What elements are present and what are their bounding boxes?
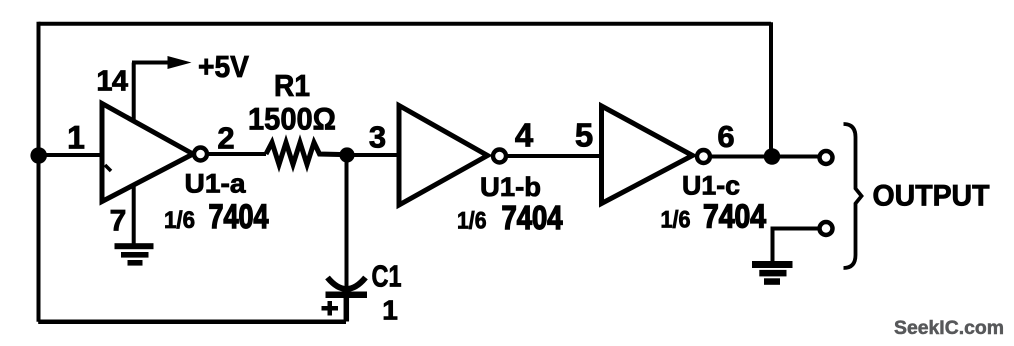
- wire U1-c output to terminal: [710, 155, 818, 159]
- svg-text:7: 7: [110, 205, 127, 238]
- inverter U1-c (1/6 7404): [602, 106, 693, 204]
- svg-text:1: 1: [382, 295, 398, 326]
- svg-text:4: 4: [515, 117, 534, 154]
- ground (U1-a pin 7): [115, 243, 154, 265]
- plus sign of C1: [322, 301, 339, 316]
- wire U1-b output to U1-c input: [506, 154, 603, 158]
- svg-text:2: 2: [217, 121, 234, 156]
- wire right vertical from top feedback down to output node: [769, 22, 773, 157]
- svg-text:SeekIC.com: SeekIC.com: [894, 318, 1004, 339]
- wire bottom feedback: [38, 320, 346, 325]
- svg-text:R1: R1: [274, 68, 310, 103]
- output terminal 2: [820, 222, 833, 235]
- svg-text:1: 1: [67, 120, 85, 156]
- svg-text:7404: 7404: [209, 198, 269, 236]
- svg-text:+5V: +5V: [198, 49, 249, 84]
- pin 7 wire: [132, 184, 136, 246]
- wire terminal 2 to ground: [773, 229, 819, 263]
- node B (R1 / C1 / U1-b input junction): [339, 147, 354, 162]
- wire U1-a output to R1: [207, 152, 266, 156]
- svg-text:1500Ω: 1500Ω: [248, 101, 336, 137]
- wire input to U1-a pin 1: [39, 153, 102, 157]
- svg-text:1/6: 1/6: [457, 208, 487, 235]
- inverter U1-b (1/6 7404): [399, 106, 488, 206]
- wire C1 to bottom feedback: [344, 297, 350, 322]
- output terminal 1: [820, 151, 833, 164]
- node C (output junction): [764, 148, 781, 165]
- svg-text:1/6: 1/6: [164, 207, 195, 234]
- svg-text:C1: C1: [372, 259, 402, 294]
- U1-b output bubble (pin 4): [493, 150, 506, 163]
- svg-text:7404: 7404: [703, 198, 767, 235]
- svg-text:1: 1: [96, 66, 112, 98]
- U1-c output bubble (pin 6): [697, 150, 710, 163]
- capacitor C1 flat plate: [326, 292, 368, 299]
- svg-text:1/6: 1/6: [661, 207, 691, 234]
- U1-a output bubble (pin 2): [194, 148, 207, 161]
- inverter U1-a (1/6 7404): [102, 104, 193, 202]
- wire top feedback: [39, 22, 772, 26]
- wire left vertical feedback: [37, 22, 41, 322]
- resistor R1: [266, 143, 340, 165]
- svg-text:6: 6: [717, 119, 734, 154]
- node A (input node, pin 1): [30, 147, 47, 164]
- svg-text:U1-c: U1-c: [682, 171, 740, 201]
- pin 14 wire: [132, 63, 136, 123]
- svg-text:U1-a: U1-a: [185, 169, 247, 199]
- capacitor C1 curved plate: [328, 278, 366, 290]
- wire node B down to C1: [345, 155, 349, 286]
- svg-text:4: 4: [112, 66, 128, 98]
- +5V arrow: [132, 61, 170, 65]
- ground (output return): [752, 261, 793, 285]
- svg-text:7404: 7404: [502, 199, 564, 236]
- wire node B to U1-b input: [347, 153, 400, 157]
- svg-text:5: 5: [575, 117, 593, 154]
- input tick artifact: [105, 165, 111, 171]
- svg-text:OUTPUT: OUTPUT: [873, 180, 990, 213]
- svg-text:3: 3: [369, 120, 386, 155]
- brace for OUTPUT: [844, 124, 862, 268]
- svg-text:U1-b: U1-b: [480, 172, 541, 202]
